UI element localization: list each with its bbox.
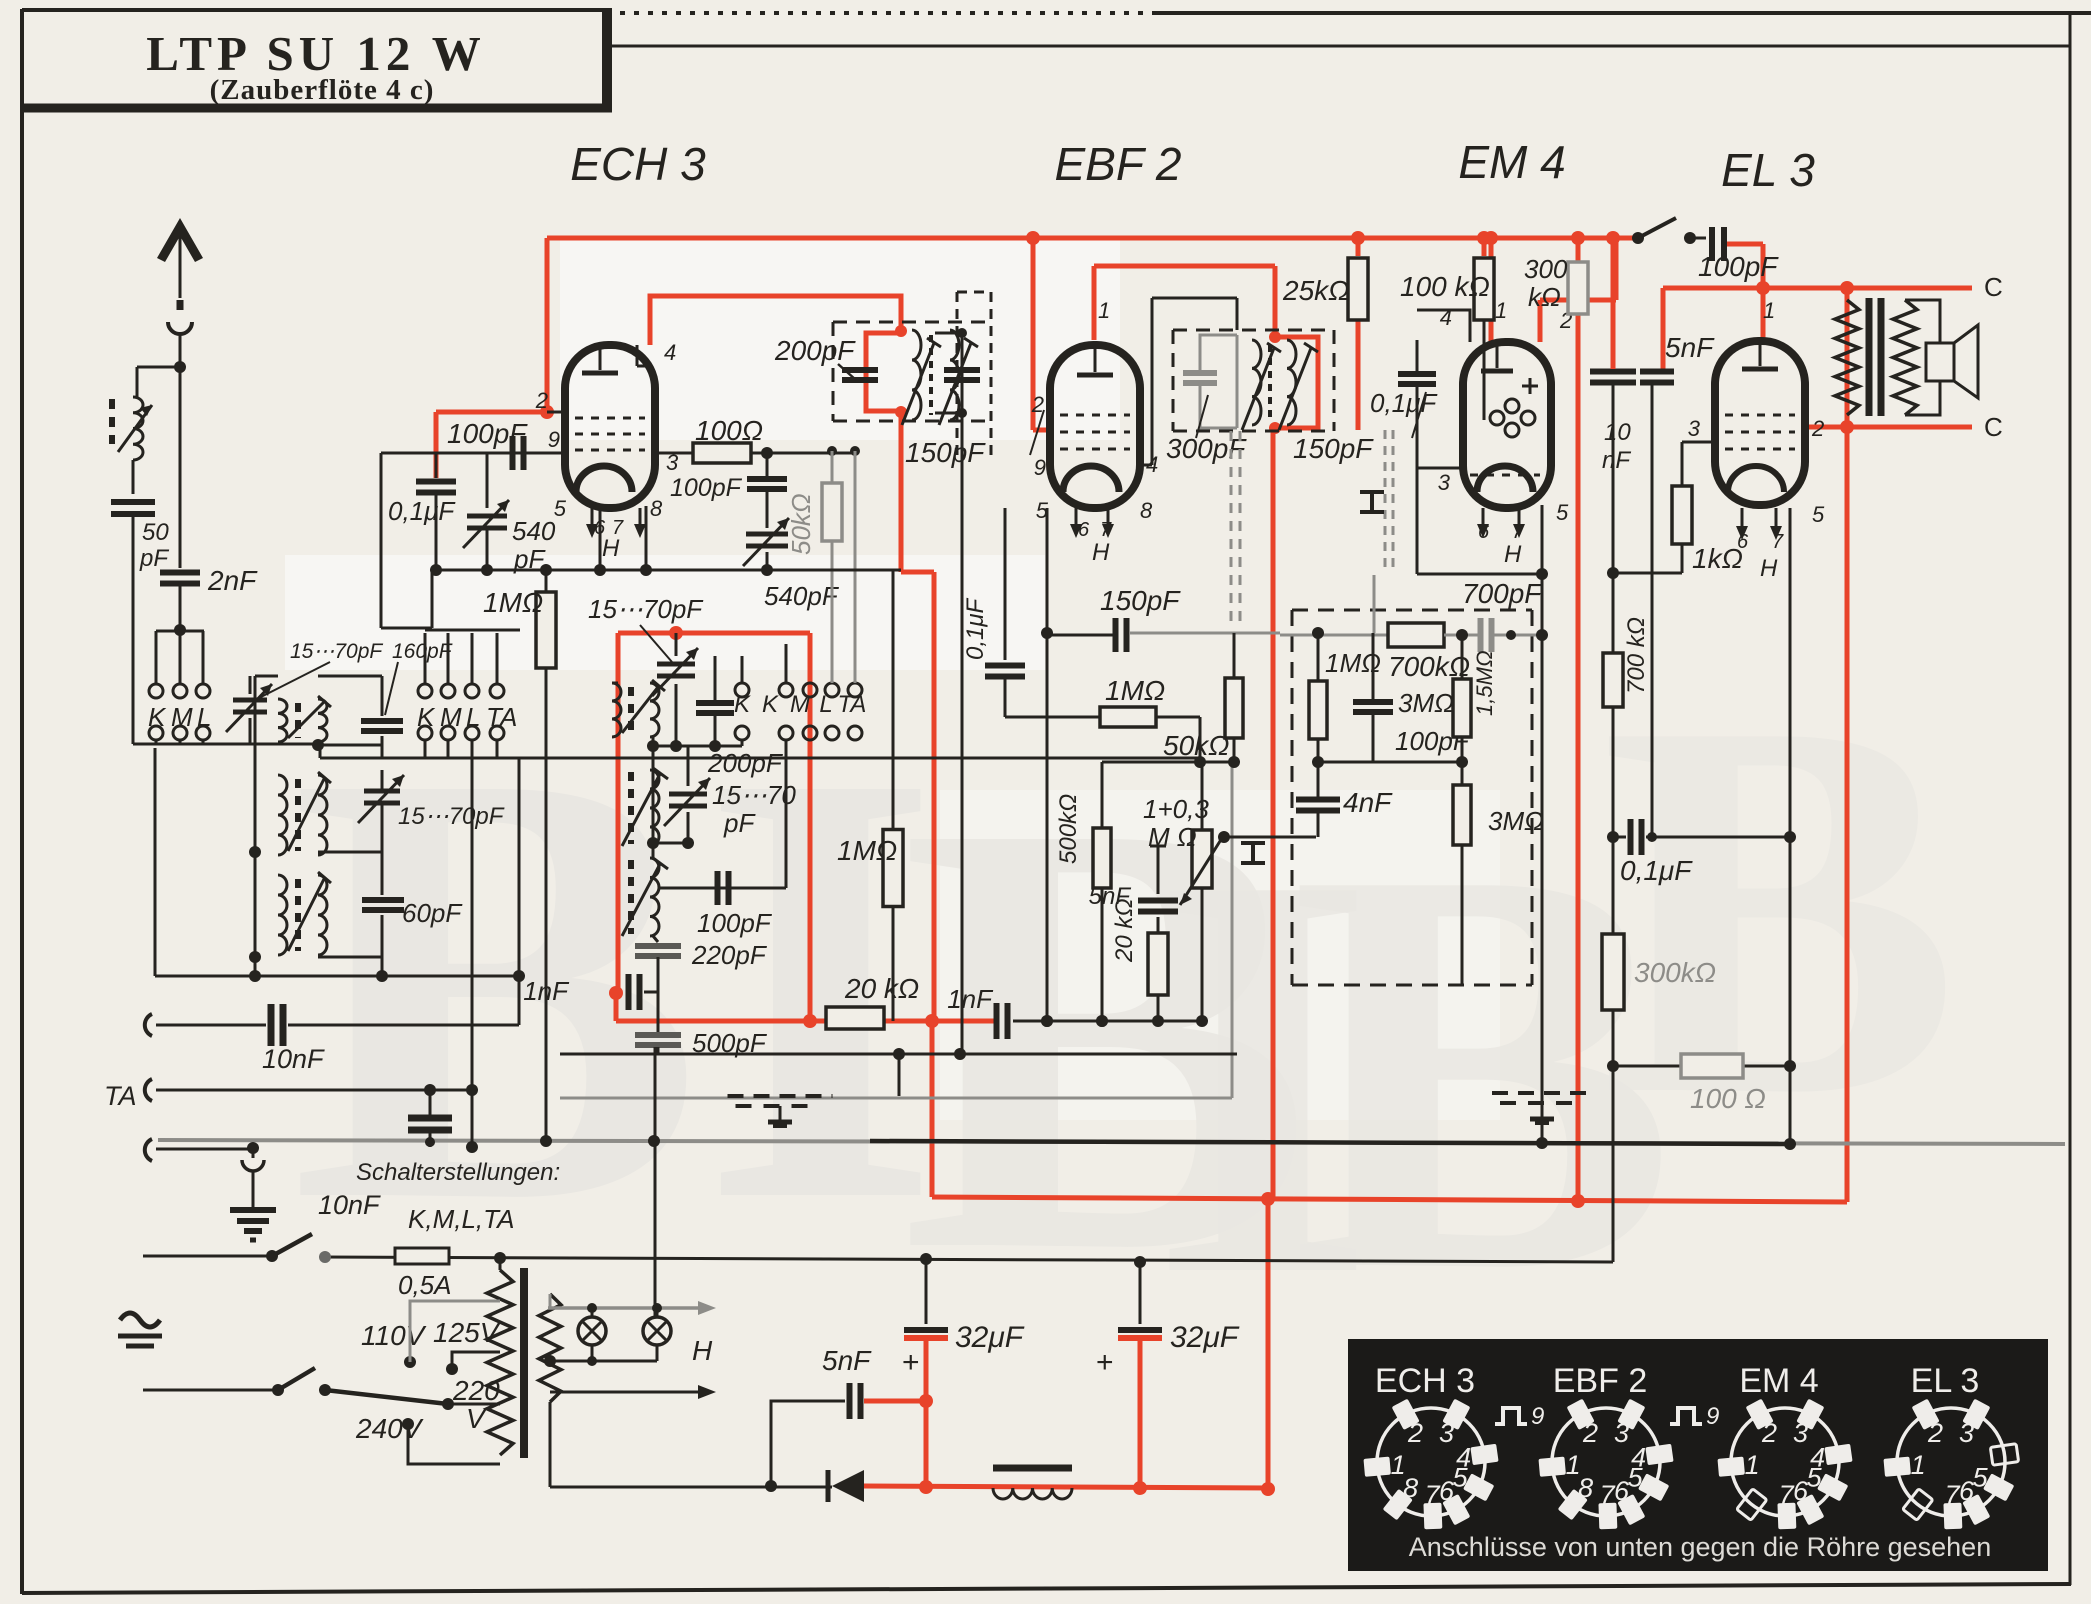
svg-text:300: 300 (1524, 254, 1568, 284)
svg-text:9: 9 (548, 427, 560, 452)
svg-text:10: 10 (1604, 419, 1631, 446)
svg-text:EL 3: EL 3 (1911, 1362, 1980, 1400)
svg-text:7: 7 (1425, 1480, 1441, 1510)
svg-text:pF: pF (723, 808, 756, 838)
svg-text:300pF: 300pF (1166, 433, 1247, 464)
svg-text:7: 7 (1779, 1480, 1795, 1510)
svg-text:9: 9 (1531, 1403, 1544, 1430)
svg-text:Anschlüsse von unten gegen die: Anschlüsse von unten gegen die Röhre ges… (1409, 1532, 1991, 1562)
svg-text:150pF: 150pF (905, 437, 986, 468)
svg-text:540pF: 540pF (764, 581, 840, 611)
svg-text:5: 5 (554, 496, 567, 521)
svg-text:60pF: 60pF (402, 898, 463, 928)
svg-text:EM 4: EM 4 (1458, 136, 1565, 188)
svg-text:4nF: 4nF (1343, 787, 1393, 818)
svg-text:50: 50 (142, 519, 169, 546)
svg-text:6: 6 (1959, 1476, 1975, 1506)
svg-text:100pF: 100pF (447, 418, 528, 449)
svg-text:5: 5 (1807, 1462, 1823, 1492)
svg-text:2: 2 (1582, 1418, 1598, 1448)
svg-text:20 kΩ: 20 kΩ (1111, 898, 1138, 963)
svg-text:EBF 2: EBF 2 (1055, 138, 1182, 190)
svg-text:2: 2 (1407, 1418, 1423, 1448)
svg-text:8: 8 (1140, 498, 1153, 523)
svg-text:240V: 240V (355, 1413, 424, 1444)
svg-text:15⋯70pF: 15⋯70pF (290, 640, 383, 663)
svg-text:0,1μF: 0,1μF (1370, 388, 1438, 418)
svg-text:6: 6 (1793, 1476, 1809, 1506)
svg-text:9: 9 (1034, 455, 1046, 480)
svg-text:5nF: 5nF (1665, 332, 1715, 363)
svg-text:6: 6 (1439, 1476, 1455, 1506)
svg-text:K: K (148, 702, 167, 732)
svg-text:+: + (902, 1346, 920, 1379)
svg-text:K: K (417, 702, 436, 732)
svg-text:150pF: 150pF (1100, 585, 1181, 616)
svg-text:15⋯70pF: 15⋯70pF (398, 803, 505, 830)
svg-text:8: 8 (650, 496, 663, 521)
svg-text:200pF: 200pF (707, 748, 784, 778)
svg-text:10nF: 10nF (262, 1044, 325, 1074)
svg-text:2: 2 (535, 388, 548, 413)
svg-text:3MΩ: 3MΩ (1488, 806, 1544, 836)
svg-text:125V: 125V (433, 1317, 501, 1348)
svg-text:2: 2 (1761, 1418, 1777, 1448)
svg-text:700 kΩ: 700 kΩ (1623, 617, 1650, 694)
svg-text:pF: pF (139, 545, 169, 572)
svg-text:ECH 3: ECH 3 (1375, 1362, 1475, 1400)
svg-text:kΩ: kΩ (1528, 282, 1561, 312)
svg-text:(Zauberflöte 4 c): (Zauberflöte 4 c) (210, 74, 435, 106)
svg-text:ECH 3: ECH 3 (570, 138, 706, 190)
svg-text:100 Ω: 100 Ω (1690, 1083, 1766, 1114)
svg-text:3: 3 (1614, 1418, 1629, 1448)
svg-text:3: 3 (1438, 470, 1451, 495)
svg-text:3: 3 (1439, 1418, 1454, 1448)
svg-text:3MΩ: 3MΩ (1398, 688, 1454, 718)
svg-text:200pF: 200pF (774, 335, 856, 366)
svg-text:0,1μF: 0,1μF (388, 496, 456, 526)
svg-text:3: 3 (1959, 1418, 1974, 1448)
svg-text:300kΩ: 300kΩ (1634, 957, 1716, 988)
svg-text:1: 1 (1495, 298, 1507, 323)
svg-text:5: 5 (1556, 500, 1569, 525)
svg-text:1nF: 1nF (947, 984, 994, 1014)
svg-text:1MΩ: 1MΩ (1105, 675, 1165, 706)
svg-text:5: 5 (1812, 502, 1825, 527)
svg-text:TA: TA (838, 691, 867, 718)
svg-text:8: 8 (1403, 1473, 1418, 1503)
svg-text:5: 5 (1628, 1462, 1644, 1492)
svg-text:2: 2 (1811, 416, 1824, 441)
svg-text:1: 1 (1911, 1450, 1926, 1480)
svg-text:2: 2 (1927, 1418, 1943, 1448)
svg-text:L: L (197, 702, 211, 732)
svg-text:150pF: 150pF (1293, 433, 1374, 464)
svg-text:C: C (1984, 412, 2003, 442)
svg-text:15⋯70pF: 15⋯70pF (588, 594, 704, 624)
svg-text:nF: nF (1602, 447, 1631, 474)
svg-text:M: M (790, 691, 810, 718)
svg-text:220pF: 220pF (691, 940, 768, 970)
svg-text:1nF: 1nF (523, 976, 570, 1006)
svg-text:H: H (602, 535, 620, 562)
svg-text:6: 6 (1614, 1476, 1630, 1506)
svg-text:100Ω: 100Ω (695, 415, 763, 446)
svg-text:50kΩ: 50kΩ (786, 493, 816, 555)
svg-text:5nF: 5nF (822, 1345, 872, 1376)
svg-text:1MΩ: 1MΩ (837, 835, 897, 866)
svg-text:B: B (1600, 609, 1960, 1207)
svg-text:540: 540 (512, 516, 556, 546)
svg-text:7: 7 (1600, 1480, 1616, 1510)
svg-text:220: 220 (452, 1375, 500, 1406)
svg-text:L: L (819, 691, 832, 718)
svg-text:1,5MΩ: 1,5MΩ (1472, 650, 1497, 716)
svg-text:100 kΩ: 100 kΩ (1400, 271, 1490, 302)
svg-text:32μF: 32μF (955, 1321, 1025, 1354)
svg-text:3: 3 (1793, 1418, 1808, 1448)
svg-text:700pF: 700pF (1462, 578, 1543, 609)
svg-text:5: 5 (1973, 1462, 1989, 1492)
svg-text:1: 1 (1745, 1450, 1760, 1480)
svg-text:EBF 2: EBF 2 (1553, 1362, 1647, 1400)
svg-text:100pF: 100pF (670, 474, 743, 502)
svg-text:15⋯70: 15⋯70 (712, 780, 796, 810)
svg-text:TA: TA (104, 1081, 137, 1111)
svg-text:2nF: 2nF (207, 565, 258, 596)
svg-text:110V: 110V (361, 1320, 427, 1351)
svg-text:10nF: 10nF (318, 1190, 381, 1220)
svg-text:9: 9 (1706, 1403, 1719, 1430)
svg-text:Schalterstellungen:: Schalterstellungen: (356, 1159, 560, 1186)
svg-text:3: 3 (1688, 416, 1701, 441)
svg-text:K: K (762, 691, 779, 718)
svg-text:100pF: 100pF (697, 908, 773, 938)
svg-text:6: 6 (1078, 519, 1090, 541)
svg-text:160pF: 160pF (392, 640, 453, 663)
svg-text:L: L (466, 702, 480, 732)
svg-text:V: V (466, 1403, 487, 1434)
svg-text:H: H (1092, 539, 1110, 566)
svg-text:7: 7 (1945, 1480, 1961, 1510)
svg-text:TA: TA (486, 702, 517, 732)
svg-text:LTP SU 12 W: LTP SU 12 W (146, 26, 486, 81)
svg-text:1: 1 (1098, 298, 1110, 323)
svg-text:+: + (1096, 1346, 1114, 1379)
svg-text:K,M,L,TA: K,M,L,TA (408, 1204, 514, 1234)
svg-text:100pF: 100pF (1698, 251, 1779, 282)
svg-text:4: 4 (1146, 452, 1158, 477)
svg-text:500kΩ: 500kΩ (1055, 794, 1082, 864)
svg-text:4: 4 (664, 340, 676, 365)
svg-text:M: M (440, 702, 462, 732)
svg-text:1+0,3: 1+0,3 (1143, 794, 1209, 824)
svg-text:25kΩ: 25kΩ (1282, 275, 1349, 306)
svg-text:0,1μF: 0,1μF (1620, 855, 1693, 886)
svg-text:0,1μF: 0,1μF (962, 597, 989, 660)
svg-text:C: C (1984, 272, 2003, 302)
svg-text:M: M (171, 702, 193, 732)
svg-text:1kΩ: 1kΩ (1692, 543, 1743, 574)
svg-text:1MΩ: 1MΩ (483, 587, 543, 618)
svg-text:8: 8 (1578, 1473, 1593, 1503)
svg-text:H: H (1504, 541, 1522, 568)
svg-text:0,5A: 0,5A (398, 1270, 452, 1300)
svg-text:K: K (734, 691, 751, 718)
svg-text:EL 3: EL 3 (1721, 144, 1815, 196)
svg-text:1: 1 (1763, 298, 1775, 323)
svg-text:H: H (692, 1335, 713, 1366)
svg-text:50kΩ: 50kΩ (1163, 730, 1229, 761)
svg-text:H: H (1760, 555, 1778, 582)
svg-text:EM 4: EM 4 (1739, 1362, 1818, 1400)
svg-text:5: 5 (1453, 1462, 1469, 1492)
svg-text:32μF: 32μF (1170, 1321, 1240, 1354)
svg-text:2: 2 (1031, 392, 1044, 417)
svg-text:20 kΩ: 20 kΩ (844, 973, 919, 1004)
